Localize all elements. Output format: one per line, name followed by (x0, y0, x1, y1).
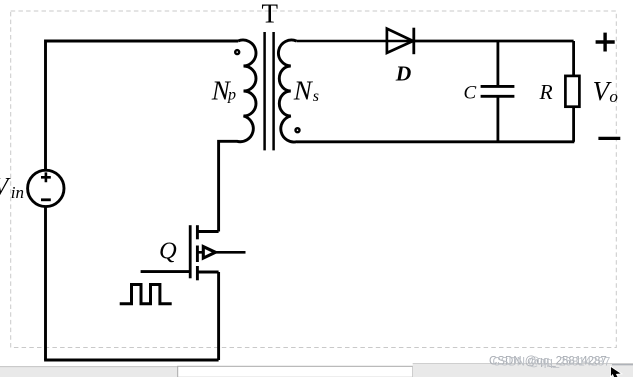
plus terminal (596, 33, 615, 52)
svg-text:N: N (293, 75, 314, 105)
svg-text:p: p (227, 87, 236, 104)
svg-text:D: D (395, 61, 412, 85)
transformer primary winding Np (219, 40, 256, 231)
mouse cursor (611, 366, 622, 377)
svg-text:C: C (464, 82, 477, 103)
secondary phase dot (296, 128, 300, 132)
diode D (387, 28, 414, 55)
pulse waveform symbol (121, 285, 170, 306)
minus terminal (598, 137, 620, 140)
transformer secondary winding Ns (278, 40, 297, 142)
bottom UI strip white box (178, 366, 413, 377)
primary phase dot (235, 50, 239, 54)
voltage source Vin (28, 170, 64, 206)
wire diode to top-right corner (414, 40, 574, 43)
bottom UI strip right gray panel (413, 364, 633, 377)
svg-text:CSDN @qq_25814287: CSDN @qq_25814287 (493, 357, 611, 369)
svg-text:o: o (609, 87, 618, 106)
wire top-left horizontal and left vertical to source (46, 41, 239, 170)
resistor R body (565, 76, 579, 107)
svg-text:Q: Q (159, 237, 177, 264)
bottom UI strip left gray panel (0, 367, 178, 377)
svg-text:T: T (262, 0, 279, 29)
svg-text:s: s (313, 88, 319, 105)
wire drain connection (197, 230, 218, 233)
capacitor C branch wires (496, 41, 499, 85)
wire bottom horizontal (44, 359, 219, 362)
watermark (489, 356, 633, 369)
wire MOSFET source vertical (217, 272, 220, 360)
transistor Q (n-MOSFET) (190, 225, 245, 280)
svg-text:in: in (11, 183, 24, 202)
resistor R branch wires (572, 41, 575, 76)
svg-text:R: R (539, 80, 553, 104)
wire output bottom (297, 140, 574, 143)
wire secondary top to diode (296, 40, 414, 43)
wire source bottom to bottom-left corner (44, 207, 47, 360)
capacitor C plates (481, 86, 515, 96)
transformer T core (265, 32, 274, 150)
wire gate (141, 270, 191, 273)
